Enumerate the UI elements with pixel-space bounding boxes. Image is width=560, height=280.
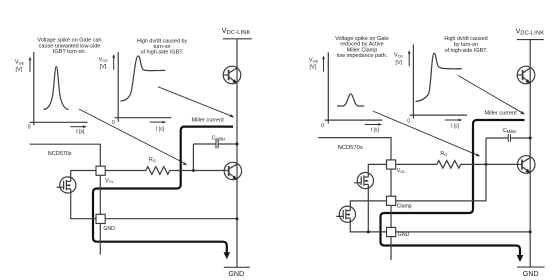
svg-text:VDC-LINK: VDC-LINK: [222, 26, 251, 36]
node: M2 source to GND net junction (right): [367, 230, 370, 233]
svg-text:low impedance path.: low impedance path.: [337, 53, 388, 59]
annotation text: left block 1: [37, 38, 101, 56]
node: emitter/GND junction (left): [236, 217, 239, 220]
node: gate junction (left): [192, 169, 195, 172]
low-side IGBT Q2 (left): [224, 162, 241, 179]
svg-text:[V]: [V]: [16, 67, 23, 73]
graph G1 V_GE axis label arrow: [29, 57, 32, 73]
main vertical wire (left: collector / phase / emitter): [236, 39, 238, 267]
svg-text:t [s]: t [s]: [371, 127, 380, 133]
node: C_Miller to collector junction (left): [236, 143, 239, 146]
svg-text:GND: GND: [398, 232, 410, 238]
annotation text: right block 2: [444, 36, 487, 54]
graph G4 t[s] axis arrow: [445, 119, 463, 122]
svg-text:CMiller: CMiller: [212, 135, 226, 141]
annotation arrow from G2 to Miller current node: [158, 87, 234, 118]
svg-text:0: 0: [407, 118, 410, 124]
graph G2 V_CE axis label arrow: [112, 54, 115, 70]
pin GND (right): [387, 227, 396, 236]
svg-text:VDC-LINK: VDC-LINK: [516, 26, 545, 36]
svg-text:0: 0: [321, 123, 324, 129]
DC link rail (left): [223, 38, 252, 40]
annotation text: left block 2: [137, 39, 188, 56]
svg-text:VOL: VOL: [397, 168, 406, 174]
svg-text:IGBT turn-on.: IGBT turn-on.: [53, 49, 87, 55]
svg-text:[V]: [V]: [100, 64, 107, 70]
Miller current thick path arrowhead to GND (left): [224, 252, 231, 259]
graph G3 t[s] axis arrow: [365, 123, 382, 126]
ground symbol (right): [517, 266, 545, 268]
annotation arrow from G1 to gate node: [79, 109, 187, 165]
driver IC outline (left): [30, 144, 101, 254]
graph G3 reduced gate spike curve: [337, 94, 364, 106]
svg-text:VOL: VOL: [105, 178, 114, 184]
graph G2 V_CE [V] label: [99, 57, 108, 70]
wire: V_OL to R_G to gate node to IGBT base (left): [105, 167, 224, 175]
output MOSFET M1 (left driver pull-down): [57, 177, 76, 193]
svg-text:0: 0: [28, 124, 31, 130]
wire: M3 drain to Clamp pin (right): [350, 201, 386, 211]
graph G1 gate spike curve: [44, 67, 69, 110]
capacitor C_Miller (right): [486, 134, 530, 164]
wire: V_OL to R_G to gate node to IGBT base (right): [396, 161, 518, 169]
Miller current pointer arrow (right): [521, 111, 525, 114]
svg-text:VGE: VGE: [309, 58, 319, 64]
svg-text:VCE: VCE: [394, 53, 403, 59]
svg-text:NCD570x: NCD570x: [48, 151, 72, 157]
svg-text:t [s]: t [s]: [76, 129, 85, 135]
high-side IGBT Q1 (left): [223, 66, 241, 84]
graph G4 V_CE dv/dt curve: [416, 53, 462, 101]
Miller current pointer arrow (left): [230, 114, 235, 117]
wire: M1 source to GND pin (left): [71, 189, 96, 219]
output MOSFET M2 (right driver pull-down): [354, 173, 373, 189]
graph G1 V_GE [V] label: [15, 59, 25, 73]
svg-text:GND: GND: [523, 270, 539, 278]
high-side IGBT Q3 (right): [517, 66, 535, 84]
svg-text:[V]: [V]: [310, 65, 317, 71]
svg-text:VCE: VCE: [99, 57, 108, 63]
svg-text:GND: GND: [228, 270, 244, 278]
ground symbol (left): [224, 266, 250, 268]
driver IC outline (right): [318, 138, 391, 260]
Miller current thick path (left): [93, 127, 233, 253]
node: gate junction (right): [485, 163, 488, 166]
svg-text:t [s]: t [s]: [156, 126, 165, 132]
svg-text:of high-side IGBT.: of high-side IGBT.: [445, 48, 488, 54]
svg-text:RG: RG: [440, 151, 447, 157]
annotation text: right block 1: [335, 36, 389, 59]
main vertical wire (right: collector / phase / emitter): [529, 40, 531, 268]
svg-text:Miller current: Miller current: [192, 117, 225, 123]
wire: M2 source down to GND net (right): [367, 184, 369, 232]
pin V_OL (left): [96, 166, 105, 175]
graph G2 t[s] axis arrow: [150, 121, 166, 124]
Miller current thick path (right): [381, 120, 525, 256]
Miller current thick path arrowhead to GND (right): [517, 255, 524, 262]
graph G3 V_GE [V] label: [309, 58, 319, 71]
graph G4 (right V_CE) axes: [410, 45, 467, 119]
node: emitter/GND junction (right): [529, 230, 532, 233]
low-side IGBT Q4 (right): [517, 156, 535, 174]
node: C_Miller to collector junction (right): [529, 137, 532, 140]
svg-text:Miller current: Miller current: [485, 111, 518, 117]
svg-text:CMiller: CMiller: [503, 128, 517, 134]
svg-text:VGE: VGE: [15, 59, 25, 65]
svg-text:RG: RG: [149, 157, 156, 163]
svg-text:0: 0: [112, 120, 115, 126]
annotation arrow from G4 to Miller current node (right): [458, 76, 525, 115]
graph G1 (left V_GE spike) axes: [30, 52, 88, 125]
pin Clamp (right): [387, 196, 396, 205]
capacitor C_Miller (left): [193, 140, 237, 171]
wire: GND net M3 source to emitter junction (right): [350, 218, 530, 232]
annotation arrow from G3 to gate node (right): [373, 111, 481, 156]
svg-text:NCD570x: NCD570x: [338, 145, 363, 151]
wire: Clamp pin to gate node (right): [396, 164, 486, 201]
pin V_OL (right): [387, 160, 396, 169]
pin GND (left): [96, 214, 105, 223]
svg-text:Clamp: Clamp: [397, 203, 412, 209]
graph G4 V_CE axis label arrow: [408, 50, 411, 66]
wire: GND pin to emitter junction (left): [105, 218, 237, 220]
graph G4 V_CE [V] label: [394, 53, 403, 67]
graph G1 t[s] axis arrow: [70, 125, 87, 128]
svg-text:t [s]: t [s]: [451, 123, 460, 129]
wire: M2 drain to V_OL pin (right): [368, 164, 386, 177]
graph G3 (right V_GE spike) axes: [325, 52, 383, 123]
svg-text:[V]: [V]: [396, 60, 403, 66]
graph G2 V_CE dv/dt curve: [121, 56, 166, 101]
graph G3 V_GE axis label arrow: [322, 56, 325, 72]
DC link rail (right): [517, 39, 544, 41]
svg-text:GND: GND: [103, 226, 115, 232]
svg-text:of high-side IGBT.: of high-side IGBT.: [141, 50, 184, 56]
clamp MOSFET M3 (right): [336, 206, 355, 222]
wire: M1 drain to V_OL pin (left): [71, 171, 96, 182]
graph G2 (left V_CE) axes: [115, 52, 172, 122]
